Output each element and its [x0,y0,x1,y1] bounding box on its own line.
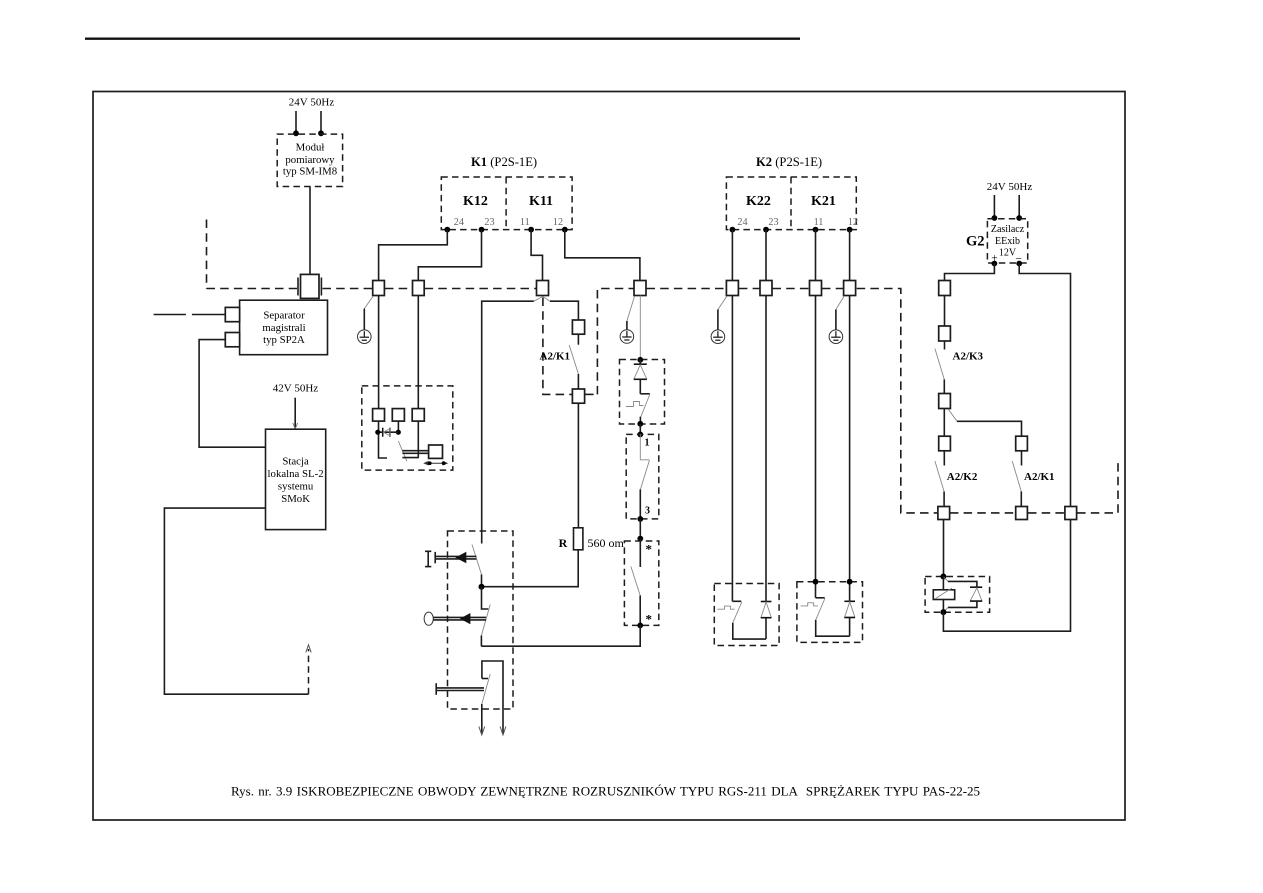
wire to pressure switch box [639,424,641,434]
wire between boxes [639,519,641,539]
connector square on bus (K22 pin24) [726,281,738,296]
wire lower port to Stacja SL-2 [199,340,265,448]
svg-text:1: 1 [645,438,650,449]
pin 23 dot [479,227,485,233]
connector square on bus (K11 pin11 feed) [537,281,549,296]
junction dot [637,623,643,629]
contact blade A2/K1 [569,345,578,374]
connector square on bus (K21 pin11) [810,281,822,296]
svg-text:23: 23 [768,217,778,228]
connector square on bus (K12 pin24 feed) [373,281,385,296]
contact blade below square B [398,441,407,461]
svg-text:typ SM-IM8: typ SM-IM8 [283,166,337,178]
wire bottom loop to right rail [943,520,1070,632]
terminal square B [392,409,404,422]
top rule line [85,38,800,40]
svg-text:A2/K1: A2/K1 [540,351,571,363]
wire bus square to valve box (right) [417,296,419,409]
relay coil (box with slash) [942,577,944,590]
relay coil unit dashed box [925,577,990,613]
handle O symbol [424,612,433,625]
wire left branch down to contact assembly [482,301,534,543]
motor thermal box left (dashed) [714,584,779,646]
svg-text:SMoK: SMoK [281,493,310,505]
contact blade A2/K2 [935,461,944,492]
stub below [944,341,946,350]
thermal contact left [732,600,741,602]
dashed bus segment [425,288,536,290]
stub below [1021,451,1023,466]
connector square [939,394,951,409]
diode (pointing up) [639,360,641,365]
svg-text:R: R [559,536,568,550]
arrow head on rod 1 [455,552,466,564]
motor thermal box right (dashed) [797,582,863,643]
Separator magistrali typ SP2A (box) [240,300,328,355]
junction dot [293,130,299,136]
wire bus square to valve box (left) [378,296,380,409]
arrow tips down [479,727,485,736]
stub below [943,451,945,466]
pin 11 dot [813,227,819,233]
wire pin23 to bus square [418,230,481,281]
junction dots on box edge [813,579,819,585]
connector square [939,326,951,341]
thermal contact in surge box [640,393,650,395]
wire pin12 to bus square [565,230,640,281]
wire A2/K2 leg down to relay box [943,520,945,577]
svg-text:24V 50Hz: 24V 50Hz [289,97,335,109]
svg-text:G2: G2 [966,234,985,250]
pin 12 dot [562,227,568,233]
svg-text:11: 11 [814,217,824,228]
diode between A and B wires [378,431,399,433]
power supply Zasilacz EExib 12V (dashed box) [987,219,1027,263]
wire 42V supply into Stacja [294,398,296,429]
pin 24 dot [730,227,736,233]
pin 12 dot [847,227,853,233]
wire resistor bottom to node [482,550,579,587]
svg-text:Rys. nr. 3.9 ISKROBEZPIECZNE O: Rys. nr. 3.9 ISKROBEZPIECZNE OBWODY ZEWN… [231,784,980,799]
contact blade A2/K3 [935,349,944,380]
junction dot bottom [637,421,643,427]
svg-text:Stacja: Stacja [282,456,309,468]
wire K21 pin11 square down [815,296,817,598]
relay K1 dashed box [441,177,572,230]
port box upper on SP2A [225,307,239,321]
dashed detour around A2/K1 contact [543,298,572,395]
ground symbol under K22 square [711,296,727,344]
supply wires into Zasilacz [993,195,995,218]
handle I symbol [425,550,431,552]
svg-text:Moduł: Moduł [296,142,325,154]
switch wire and blade [640,434,649,459]
main leg below A2/K3 [943,409,945,437]
travel arrow (double headed) [423,461,448,466]
connector square on bus2 (right rail) [1065,507,1077,520]
connector square (A2/K2 leg) [939,436,951,451]
dashed bus segment level2 [1028,512,1065,514]
wire pin12 down [849,230,851,281]
wire module to bus connector [309,187,311,275]
module Modul pomiarowy typ SM-IM8 (dashed box) [277,134,342,186]
svg-text:A2/K2: A2/K2 [947,471,978,483]
svg-text:11: 11 [520,217,530,228]
svg-text:EExib: EExib [995,236,1020,247]
diode left box [761,601,772,603]
wire pin11 to bus square [531,230,542,281]
contact 3 bracket [482,661,503,734]
junction dot bottom [940,609,946,615]
svg-text:K1 (P2S-1E): K1 (P2S-1E) [471,155,537,169]
junction dot pin1 [637,432,643,438]
connector square on bus (K11 pin12 feed) [634,281,646,296]
dashed bus segment [822,288,844,290]
svg-text:3: 3 [645,506,650,517]
actuating rod 1 (double line) [435,555,476,557]
junction dot [396,430,401,435]
connector square (A2/K1 leg) [1016,436,1028,451]
actuating rod 3 (double line) [436,687,484,689]
svg-text:lokalna SL-2: lokalna SL-2 [268,468,324,480]
svg-text:Zasilacz: Zasilacz [991,224,1025,235]
svg-text:magistrali: magistrali [262,322,305,334]
wire pin23 down [765,230,767,281]
bypass branch with diode [943,577,948,582]
fixed contact line [402,457,418,459]
valve unit dashed box [362,386,453,470]
wire K21 pin12 square down [849,296,851,602]
fan-out below K11 pin11 square [534,297,543,302]
arrow head on rod 2 [460,613,471,624]
svg-text:A2/K1: A2/K1 [1024,471,1055,483]
wire minus to right rail [1019,264,1070,507]
dashed bus segment [647,288,727,290]
thermostat dashed box (star pins) [624,541,658,625]
wire to next square [944,296,946,327]
dashed bus segment level2 [950,512,1015,514]
Stacja lokalna SL-2 systemu SMoK (box) [266,429,326,529]
svg-text:24: 24 [454,217,464,228]
svg-text:12: 12 [553,217,563,228]
dashed bus segment [773,288,809,290]
svg-text:Separator: Separator [263,309,305,321]
contact 3 blade [482,674,490,704]
dashed bus corner to G2 zone [857,289,937,513]
thermal contact right [816,597,825,599]
drawing border frame [93,92,1125,821]
ground symbol under middle-column square [620,296,634,343]
thin wire bus square 640 down to surge box [639,296,641,360]
ground symbol under K21 square [829,296,844,344]
junction dot [637,536,643,542]
switch wire and blade [639,539,641,567]
port box lower on SP2A [225,333,239,347]
svg-text:typ SP2A: typ SP2A [263,334,305,346]
svg-text:12: 12 [848,217,858,228]
pin 11 dot [528,227,534,233]
contact 1 blade [472,545,482,575]
svg-text:560 om: 560 om [588,536,625,550]
wire blade to square [943,380,945,394]
svg-text:24: 24 [737,217,747,228]
connector square on bus (K21 pin12) [844,281,856,296]
svg-text:12V: 12V [999,248,1017,259]
svg-text:24V 50Hz: 24V 50Hz [987,181,1033,193]
dashed bus segment [207,288,298,290]
terminal square A [373,409,385,422]
diode right box [844,600,855,602]
junction dot pin3 [637,516,643,522]
wire below square C [417,421,419,458]
dashed bus end stub up [1077,462,1118,513]
dashed IS-zone boundary riser left [206,220,208,289]
relay K2 dashed box [726,177,856,230]
dashed bus segment [323,288,373,290]
svg-text:K12: K12 [463,194,488,209]
svg-text:K21: K21 [811,194,836,209]
actuating rod 2 (double line) [433,616,486,618]
connector square on lower dashed edge (A2/K1) [572,389,584,403]
wire lower square to resistor R [577,403,579,528]
pressure switch dashed box (pins 1-3) [626,434,659,519]
bus connector on SP2A (plug symbol) [301,274,320,298]
node dot [479,584,485,590]
connector square on bus2 [1016,507,1028,520]
junction dot [318,130,324,136]
connector square on bus (K22 pin23) [760,281,772,296]
wire down and left to contact assembly [481,625,640,646]
contact 2 fixed + blade [482,587,489,609]
svg-text:K22: K22 [746,194,771,209]
wire below square B [397,421,399,432]
connector square in A2/K1 chain [572,320,584,334]
svg-text:*: * [646,542,653,557]
junction dot top [637,357,643,363]
actuating rod (double line) to square D [402,450,428,452]
ground symbol under first bus square [358,296,374,344]
svg-text:42V 50Hz: 42V 50Hz [273,383,319,395]
junction dot top [940,574,946,580]
dashed return arrow up [308,649,310,694]
connector square (feed-through) [939,281,951,296]
connector square on bus (K12 pin23 feed) [413,281,425,296]
wire plus to A2/K3 chain [945,264,995,281]
wire below square [577,334,579,345]
wire K22 pin24 square down [731,296,733,602]
pin 23 dot [763,227,769,233]
dashed bus segment [385,288,412,290]
pin 24 dot [444,227,450,233]
wire blade to lower square [577,374,579,389]
starter switch dashed box [448,531,514,709]
wire pin11 down [815,230,817,281]
wire to bus square [943,492,945,507]
wire to bus square [1020,492,1022,507]
svg-text:pomiarowy: pomiarowy [285,154,335,166]
contact blade A2/K1 [1012,461,1021,492]
svg-text:A2/K3: A2/K3 [953,351,984,363]
stub dashed line into upper port [154,314,186,316]
svg-text:systemu: systemu [278,481,314,493]
terminal square C [412,409,424,422]
resistor R (vertical) [574,528,583,550]
svg-text:23: 23 [484,217,494,228]
wire 50Hz down to module [320,111,322,133]
surge protector dashed box [620,360,665,425]
terminal square D [429,445,443,458]
wire K22 pin23 square down [765,296,767,602]
wire below square A [379,421,388,458]
wire pin24 down [731,230,733,281]
connector square on bus2 [938,507,950,520]
wire right branch to A2/K1 chain [550,301,578,320]
svg-text:K2 (P2S-1E): K2 (P2S-1E) [756,155,822,169]
wire 24V down to module [295,111,297,133]
svg-text:K11: K11 [529,194,553,209]
wire pin24 to bus square [379,230,448,281]
dashed bus segment [739,288,760,290]
svg-text:*: * [646,612,653,627]
wire Stacja loop to measuring cable [164,508,308,694]
branch to A2/K1 leg [949,410,958,422]
